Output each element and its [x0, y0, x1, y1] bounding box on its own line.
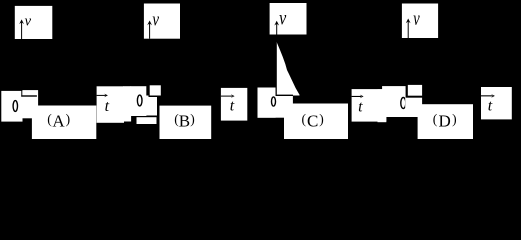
- svg-text:t: t: [358, 99, 363, 116]
- v-axis arrow C: [276, 22, 277, 35]
- curve D vertical line: [406, 85, 408, 96]
- svg-text:C: C: [307, 111, 318, 130]
- svg-text:D: D: [438, 111, 450, 130]
- v-axis box C: [270, 3, 307, 35]
- svg-text:): ): [452, 111, 457, 126]
- v-axis box A: [15, 6, 53, 39]
- t-axis arrow B: [221, 96, 232, 97]
- t-axis arrow A: [97, 95, 106, 96]
- svg-text:v: v: [279, 7, 287, 29]
- 0-box B: [123, 86, 146, 121]
- curve bar A: [21, 90, 38, 118]
- 0-box A: [1, 91, 22, 122]
- svg-text:(: (: [302, 111, 307, 126]
- svg-text:t: t: [488, 98, 493, 115]
- svg-text:): ): [66, 111, 71, 126]
- spike triangle C: [276, 41, 299, 96]
- svg-text:v: v: [152, 9, 159, 30]
- 0 glyph D: [401, 98, 406, 109]
- 0 glyph C: [272, 97, 276, 106]
- curve D horizontal line: [406, 96, 422, 98]
- svg-text:v: v: [25, 14, 32, 30]
- svg-text:(: (: [433, 111, 438, 126]
- label box (B): [160, 106, 212, 139]
- label box (D): [418, 104, 473, 139]
- curve B horizontal line: [149, 96, 162, 98]
- 0 glyph B: [137, 95, 142, 106]
- label box (C): [284, 104, 348, 140]
- svg-text:): ): [319, 111, 324, 126]
- v-axis arrow D: [408, 20, 409, 38]
- t-axis line C: [276, 95, 293, 96]
- t-axis arrow C: [352, 96, 361, 97]
- curve line A (horizontal): [21, 95, 37, 96]
- t-box C: [352, 89, 387, 122]
- curve C rise line (vertical): [276, 41, 277, 95]
- curve fragment B: square + under part: [137, 85, 162, 124]
- 0 glyph A: [13, 101, 17, 112]
- svg-text:A: A: [52, 111, 65, 130]
- curve B vertical drop line: [146, 85, 149, 95]
- v-axis box B: [144, 4, 180, 39]
- 0-box D: [378, 86, 406, 122]
- base white C (left of spike): [258, 41, 300, 118]
- svg-text:B: B: [179, 111, 190, 130]
- axis stub A (vertical): [21, 90, 22, 97]
- bottom tab B: [137, 117, 157, 124]
- svg-text:t: t: [230, 97, 235, 114]
- v-axis arrow A: [21, 21, 22, 39]
- svg-text:t: t: [105, 98, 110, 115]
- v-axis arrow B: [149, 22, 150, 39]
- t-box D: [481, 87, 512, 119]
- t-axis arrow D: [481, 95, 492, 96]
- under-axis white C: [258, 96, 293, 118]
- svg-text:v: v: [413, 7, 420, 30]
- curve fragment D: square + under part: [405, 85, 422, 117]
- t-box B: [221, 88, 247, 121]
- t-box A: [97, 86, 124, 123]
- label box (A): [32, 106, 96, 140]
- v-axis box D: [402, 4, 438, 39]
- svg-text:): ): [190, 111, 195, 126]
